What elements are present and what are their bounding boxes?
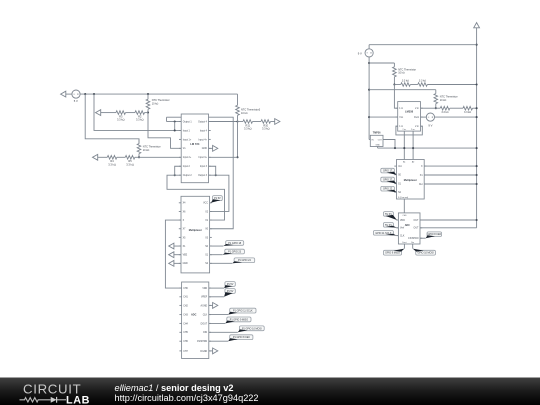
ground flag DGND [213, 348, 218, 354]
svg-text:P1 5V: P1 5V [227, 283, 234, 286]
thermistor NTC2 [137, 139, 161, 158]
node flag GPIO 10 MOSI [413, 249, 436, 256]
svg-text:Input 2: Input 2 [183, 165, 191, 168]
svg-text:Din: Din [411, 242, 414, 244]
wire mux to rail 1 [424, 165, 476, 167]
node flag P1 5V mux [211, 196, 222, 203]
junction [476, 147, 478, 149]
junction [215, 174, 217, 176]
svg-text:3.3 kΩ: 3.3 kΩ [441, 111, 448, 114]
junction [393, 83, 395, 85]
svg-text:ADC: ADC [405, 224, 410, 227]
wire mux to rail 2 [424, 174, 476, 176]
wire U4 feedback bracket [396, 126, 422, 135]
resistor R11 [243, 120, 253, 131]
junction [368, 89, 370, 91]
svg-text:OUT: OUT [414, 220, 419, 222]
thermistor NTC3 [236, 94, 261, 121]
wire divider2 to IN2+ [139, 156, 181, 158]
node flag P1 5V vref [224, 289, 235, 297]
U1 left pins [179, 120, 192, 177]
svg-text:3.3 kΩ: 3.3 kΩ [419, 80, 426, 83]
svg-text:CH3: CH3 [183, 314, 188, 316]
wire output2 to mux X1 [167, 175, 225, 220]
svg-text:Input 3+: Input 3+ [199, 156, 208, 159]
wire DIN [209, 331, 238, 333]
svg-text:AGND: AGND [201, 304, 208, 307]
wire rail to U4 Vcc [369, 116, 398, 118]
svg-text:P1 5V: P1 5V [227, 290, 234, 293]
thermistor NTC1 [146, 94, 170, 113]
wire IN3+ row [209, 156, 238, 158]
svg-text:GPIO 27: GPIO 27 [383, 178, 393, 181]
wire S1 [210, 254, 223, 256]
wire divider3 to opamp 1+ [394, 85, 397, 109]
svg-text:Input 4: Input 4 [200, 129, 208, 132]
svg-text:Multiplexer: Multiplexer [404, 179, 417, 182]
junction [174, 174, 176, 176]
wire ADC out2 to rail [420, 227, 477, 229]
svg-text:P1 GPIO 24: P1 GPIO 24 [238, 259, 252, 262]
svg-text:GND: GND [202, 148, 207, 150]
svg-text:3.3 kΩ: 3.3 kΩ [136, 118, 144, 122]
svg-text:Input 1+: Input 1+ [183, 138, 192, 141]
resistor R7 [418, 83, 428, 87]
wire top [369, 44, 477, 46]
svg-text:CH0: CH0 [403, 215, 407, 217]
junction [147, 112, 149, 114]
svg-text:3.3 kΩ: 3.3 kΩ [262, 127, 270, 131]
node flag up arrow [474, 23, 480, 28]
wire rail to NTC2 [85, 94, 139, 144]
svg-text:P1 GPIO 11 SCLK: P1 GPIO 11 SCLK [233, 310, 253, 313]
svg-text:Multiplexer: Multiplexer [189, 229, 202, 232]
junction [476, 174, 478, 176]
node flag GPIO 27 [381, 177, 397, 183]
wire NTC1 tap to Vs [148, 113, 181, 149]
svg-text:ADC: ADC [191, 314, 197, 317]
junction [476, 116, 478, 118]
svg-text:P1 GPIO 18: P1 GPIO 18 [228, 242, 242, 245]
wire 5V rail [80, 93, 237, 95]
wire mux to rail 3 [424, 183, 476, 185]
node flag P1 GPIO 11 SCLK [228, 308, 256, 314]
junction [476, 219, 478, 221]
wire [473, 107, 477, 109]
logo resistor squiggle [20, 398, 51, 402]
wire stub [397, 219, 399, 221]
svg-text:Vref: Vref [400, 227, 404, 230]
wire S2 [210, 262, 233, 264]
wire U4 pin to mux A0 [412, 131, 414, 159]
wire AGND stub [209, 304, 213, 306]
svg-text:10 kΩ: 10 kΩ [398, 72, 405, 75]
svg-text:5 V: 5 V [74, 99, 78, 103]
svg-text:P1 GPIO 23: P1 GPIO 23 [228, 251, 242, 254]
junction [476, 44, 478, 46]
wire feedback out3 in3 [209, 166, 216, 175]
U2 right pins [203, 203, 212, 266]
ground flag mux VEE [169, 252, 174, 258]
wire NTC3 tail to IN3+ [237, 122, 239, 158]
wire gnd rail [378, 147, 477, 149]
junction [368, 116, 370, 118]
logo diode [51, 397, 57, 403]
junction [147, 93, 149, 95]
U3 right pins [197, 288, 211, 353]
wire [145, 112, 149, 114]
svg-text:DIN: DIN [203, 332, 207, 334]
svg-text:GND: GND [375, 145, 380, 147]
svg-text:Out: Out [419, 183, 423, 186]
svg-text:CH2: CH2 [183, 305, 188, 307]
svg-text:5V P1: 5V P1 [385, 213, 392, 216]
svg-text:Dout: Dout [402, 241, 406, 244]
ADC U7 MCP3002 [398, 213, 420, 244]
junction [93, 93, 95, 95]
node flag P1 GPIO 23 [223, 249, 245, 255]
wire rail to TMP36 [369, 139, 370, 141]
wire [421, 116, 427, 118]
svg-text:Output 1: Output 1 [183, 120, 193, 123]
svg-text:elliemac1 / senior desing v2: elliemac1 / senior desing v2 [115, 383, 234, 393]
wire [271, 121, 275, 123]
node flag GPIO 17 [381, 168, 397, 174]
wire stub [397, 227, 399, 229]
op-amp U1 LM724 [181, 114, 208, 183]
wire [174, 245, 181, 247]
svg-text:LM 724: LM 724 [190, 142, 200, 146]
wire [238, 121, 244, 123]
svg-text:VDD: VDD [400, 220, 405, 222]
wire feedback out2 in2 [175, 166, 182, 175]
wire behind IC left [167, 116, 182, 118]
svg-text:CH4: CH4 [183, 323, 188, 325]
svg-text:VREF: VREF [201, 297, 208, 299]
svg-text:CH7: CH7 [183, 351, 188, 353]
svg-text:10 kΩ: 10 kΩ [241, 112, 248, 115]
junction [138, 156, 140, 158]
resistor R2 [135, 111, 145, 122]
ground flag left of V1 [61, 91, 66, 97]
wire V3 to rail [435, 116, 477, 118]
svg-text:CLK: CLK [203, 314, 208, 316]
wire [101, 112, 117, 114]
U6 left pins [394, 166, 402, 194]
ADC U3 MCP3008 [182, 282, 209, 359]
wire TMP36 out [383, 140, 395, 149]
svg-text:9 V: 9 V [358, 51, 362, 55]
junction [174, 120, 176, 122]
wire [253, 121, 262, 123]
wire rail to IN1- [94, 94, 181, 130]
U7 right pins [408, 220, 422, 240]
svg-text:3.3 kΩ: 3.3 kΩ [244, 127, 252, 131]
svg-text:http://circuitlab.com/cj3x47g9: http://circuitlab.com/cj3x47g94q222 [115, 393, 259, 403]
thermistor NTC5 [434, 90, 458, 109]
svg-text:CH5: CH5 [183, 332, 188, 334]
wire branch2 [369, 89, 436, 91]
thermistor NTC4 [393, 63, 417, 85]
svg-text:3.3 kΩ: 3.3 kΩ [117, 118, 125, 122]
svg-text:2 in-: 2 in- [402, 129, 406, 131]
resistor R10 [261, 120, 271, 131]
svg-text:GPIO 9 MISO: GPIO 9 MISO [385, 252, 400, 255]
svg-text:Out1: Out1 [414, 116, 420, 119]
voltage source V2 9V [358, 49, 373, 57]
svg-text:5V P1: 5V P1 [385, 224, 392, 227]
ground flag mux X1 [169, 243, 174, 249]
junction [84, 93, 86, 95]
wire ADC out to rail [420, 219, 477, 221]
node flag P1 GPIO 10 MOSI [238, 326, 264, 332]
svg-text:3.3 kΩ: 3.3 kΩ [126, 162, 134, 166]
svg-text:P1 5V: P1 5V [214, 197, 221, 200]
wire output1 stub [167, 121, 182, 123]
svg-text:10 kΩ: 10 kΩ [152, 103, 159, 106]
wire [210, 202, 211, 204]
resistor R9 [463, 106, 473, 110]
node flag GPIO 8 CE0 [426, 232, 442, 238]
wire left rail [368, 57, 370, 140]
U7 left pins [396, 220, 405, 238]
wire [394, 84, 400, 86]
node flag GPIO 22 [381, 186, 397, 192]
wire CS [209, 340, 228, 342]
svg-text:VEE: VEE [183, 255, 188, 257]
svg-text:Input 1: Input 1 [183, 129, 191, 132]
junction [412, 147, 414, 149]
resistor R6 [401, 83, 411, 87]
svg-text:Input 4+: Input 4+ [199, 138, 208, 141]
wire U4 pin to mux A1 [403, 131, 405, 159]
resistor R8 [440, 106, 450, 110]
junction [476, 107, 478, 109]
wire [166, 117, 168, 121]
voltage source V1 5V [72, 90, 80, 103]
U4 right pins [414, 108, 423, 128]
wire [368, 45, 370, 49]
wire S0 [210, 245, 224, 247]
node flag P1 5V vdd [224, 282, 235, 289]
op-amp U4 LM358 [398, 102, 421, 132]
wire gnd stub [209, 147, 213, 149]
svg-text:10 kΩ: 10 kΩ [440, 99, 447, 102]
ground flag divider1 [96, 110, 101, 116]
node flag P1 GPIO 24 [232, 258, 255, 263]
svg-text:DGND: DGND [200, 351, 207, 353]
svg-text:CS/SHDN: CS/SHDN [408, 238, 419, 240]
svg-text:P1 GPIO 8 CE0: P1 GPIO 8 CE0 [233, 336, 251, 339]
resistor R5 [125, 156, 135, 167]
wire [174, 254, 181, 256]
ground flag R10 [275, 119, 280, 125]
wire output3 to mux X2 [209, 175, 229, 211]
wire [450, 107, 463, 109]
wire DOUT [209, 322, 225, 324]
svg-text:P1 GPIO 10 MOSI: P1 GPIO 10 MOSI [242, 327, 262, 330]
multiplexer U2 [181, 196, 210, 273]
U1 right pins [198, 120, 211, 177]
svg-text:3.3 kΩ: 3.3 kΩ [402, 80, 409, 83]
wire [135, 156, 139, 158]
svg-text:P1 GPIO 9 MISO: P1 GPIO 9 MISO [230, 318, 248, 321]
wire [410, 84, 418, 86]
wire Dout down [403, 244, 405, 249]
wire mux out to ADC [403, 199, 405, 213]
svg-text:TMP36: TMP36 [373, 131, 381, 134]
svg-text:10 kΩ: 10 kΩ [143, 149, 150, 152]
resistor R4 [107, 156, 117, 167]
svg-text:A1: A1 [403, 161, 405, 164]
junction [476, 83, 478, 85]
svg-text:OUT: OUT [414, 228, 419, 230]
wire DGND stub [209, 350, 213, 352]
wire [126, 112, 136, 114]
svg-text:Input 2+: Input 2+ [183, 156, 192, 159]
wire opamp 2+ row [421, 107, 436, 109]
svg-text:3.3 kΩ: 3.3 kΩ [464, 111, 471, 114]
svg-text:GPIO 22: GPIO 22 [383, 188, 393, 191]
svg-text:Input 3: Input 3 [200, 165, 208, 168]
U3 left pins [179, 288, 188, 353]
wire VDD [209, 287, 224, 289]
node flag P1 GPIO 8 CE0 [228, 335, 253, 341]
svg-text:LM358: LM358 [405, 109, 414, 113]
wire [117, 156, 126, 158]
node flag P1 GPIO 18 [223, 241, 243, 246]
junction [368, 62, 370, 64]
svg-text:GND: GND [183, 263, 188, 265]
svg-text:VDD: VDD [202, 288, 207, 290]
node flag 5V P1 vdd [383, 212, 397, 220]
wire stub [397, 235, 399, 237]
sensor U5 TMP36 [370, 135, 383, 146]
wire TMP36 gnd stub [377, 147, 379, 149]
svg-text:LAB: LAB [66, 394, 90, 405]
svg-text:GPIO 10 MOSI: GPIO 10 MOSI [418, 252, 434, 255]
svg-text:9 V: 9 V [428, 124, 432, 128]
wire row1 to rail [427, 84, 476, 86]
wire [98, 156, 108, 158]
wire feedback out1 to in1 [174, 122, 176, 131]
svg-text:GPIO 8 CE0: GPIO 8 CE0 [428, 233, 442, 236]
svg-text:DOUT: DOUT [201, 323, 208, 325]
node flag 5V P1 vref [383, 223, 397, 228]
U4 left pins [396, 108, 404, 128]
junction [476, 183, 478, 185]
voltage source V3 9V [426, 113, 434, 128]
wire gnd to V1 [66, 93, 72, 95]
svg-text:GPIO 17: GPIO 17 [383, 170, 393, 173]
svg-text:X (Com out): X (Com out) [398, 196, 409, 199]
resistor R3 [116, 111, 126, 122]
wire Din down [412, 244, 414, 249]
ground flag mux GND [169, 260, 174, 266]
junction [403, 147, 405, 149]
wire mux X to ADC CH0 [165, 220, 181, 288]
wire VREF [209, 296, 224, 298]
node flag GPIO 11 SCLK [373, 231, 397, 236]
svg-text:CS/SHDN: CS/SHDN [197, 341, 208, 343]
ground flag U1 GND [213, 145, 218, 151]
svg-text:CH0: CH0 [183, 288, 188, 290]
wire branch1 [369, 62, 394, 64]
U2 left pins [179, 203, 188, 266]
svg-text:Output 2: Output 2 [183, 174, 193, 177]
wire [174, 262, 181, 264]
svg-text:GPIO 11 SCLK: GPIO 11 SCLK [375, 232, 391, 235]
junction [394, 147, 396, 149]
junction [174, 129, 176, 131]
node flag P1 GPIO 9 MISO [225, 317, 251, 323]
node flag GPIO 9 MISO [383, 249, 404, 256]
svg-text:CH1: CH1 [183, 297, 188, 299]
junction [435, 107, 437, 109]
svg-text:VCC: VCC [203, 203, 208, 205]
junction [236, 156, 238, 158]
junction [236, 120, 238, 122]
svg-text:3.3 kΩ: 3.3 kΩ [108, 162, 116, 166]
ground flag divider2 [93, 154, 98, 160]
svg-text:CH6: CH6 [183, 341, 188, 343]
U6 right pins [419, 166, 427, 186]
svg-text:A0: A0 [412, 161, 414, 164]
wire CLK [209, 314, 228, 316]
multiplexer U6 [397, 160, 425, 200]
wire [436, 107, 441, 109]
svg-text:CLK: CLK [400, 235, 405, 237]
ground flag AGND [213, 303, 218, 309]
wire output1 to mux X0 [209, 117, 234, 229]
wire right rail [476, 28, 478, 228]
svg-text:Output 4: Output 4 [198, 120, 208, 123]
junction [476, 165, 478, 167]
wire output4 row [209, 121, 238, 123]
wire CS [420, 237, 426, 239]
svg-text:Output 3: Output 3 [198, 174, 208, 177]
